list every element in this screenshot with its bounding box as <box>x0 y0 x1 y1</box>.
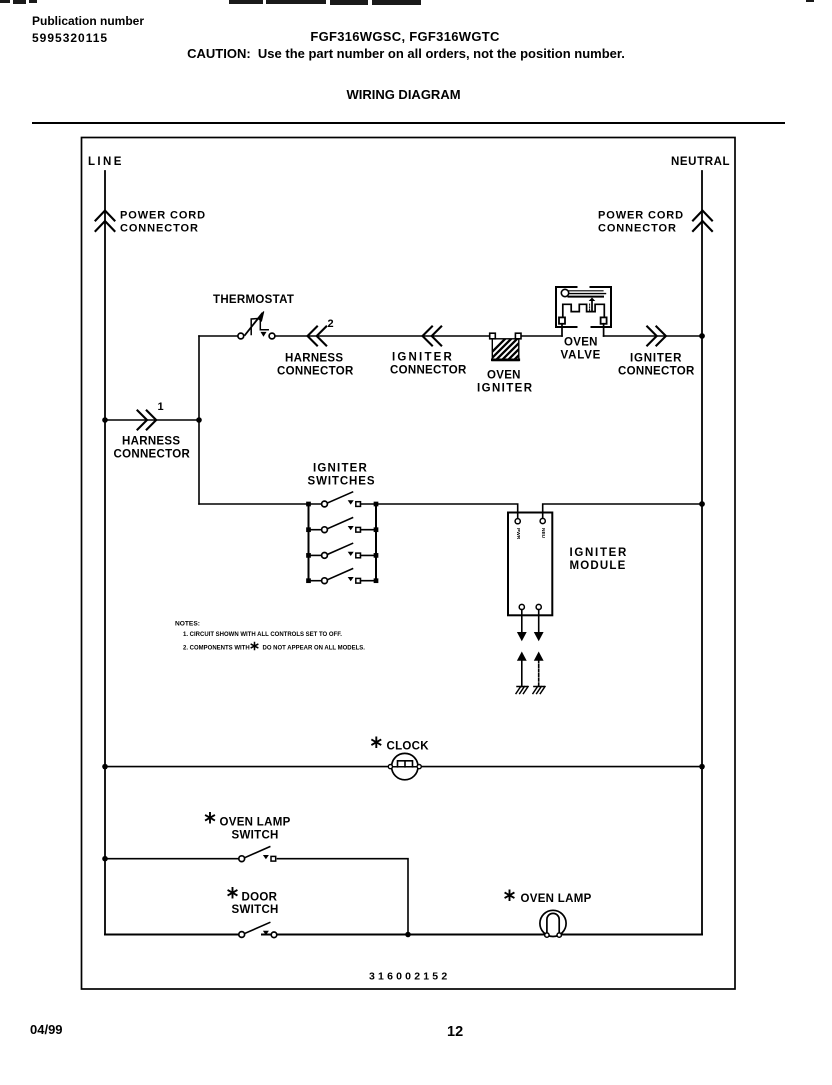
svg-text:IGNITER: IGNITER <box>477 383 533 395</box>
thermostat switch symbol <box>238 312 275 339</box>
label OVEN LAMP SWITCH <box>220 817 291 842</box>
oven lamp symbol <box>540 910 566 937</box>
label HARNESS CONNECTOR (1) <box>114 436 191 461</box>
svg-text:NEUTRAL: NEUTRAL <box>671 156 730 168</box>
svg-text:CONNECTOR: CONNECTOR <box>120 223 199 235</box>
asterisk for OVEN LAMP <box>505 891 513 901</box>
svg-text:NOTES:: NOTES: <box>175 621 200 628</box>
label OVEN VALVE <box>561 337 602 362</box>
wire: door switch / oven lamp row <box>105 934 702 936</box>
module pin PWR (top left) <box>515 519 520 524</box>
igniter switch bank left rail <box>308 504 310 581</box>
junction: thermostat row to neutral rail <box>699 333 705 339</box>
svg-text:IGNITER: IGNITER <box>313 463 368 475</box>
junction: harness row at branch vertical <box>196 417 202 423</box>
svg-text:2: 2 <box>328 318 334 330</box>
igniter switch 1 <box>322 492 376 507</box>
label IGNITER MODULE <box>570 547 629 572</box>
wire: branch vertical x=199 <box>198 336 200 504</box>
igniter connector (left) symbol <box>423 327 442 346</box>
wire: switches to igniter module pin <box>376 504 518 519</box>
svg-text:CONNECTOR: CONNECTOR <box>618 366 695 378</box>
wire: oven igniter to oven valve <box>521 335 562 337</box>
svg-text:OVEN: OVEN <box>487 370 521 382</box>
chassis ground (left) <box>516 687 528 694</box>
svg-text:PWR: PWR <box>515 528 521 540</box>
igniter connector (right) symbol <box>647 327 666 346</box>
svg-text:IGNITER: IGNITER <box>630 353 682 365</box>
svg-text:THERMOSTAT: THERMOSTAT <box>213 294 294 306</box>
harness connector 2 symbol <box>308 327 327 346</box>
diagram border frame <box>82 138 736 990</box>
asterisk for OVEN LAMP SWITCH <box>206 813 214 823</box>
svg-text:DOOR: DOOR <box>242 892 278 904</box>
clock motor symbol <box>388 753 421 779</box>
module plug arrow down (right) <box>534 610 544 642</box>
junction: lamp switch branch joins door row <box>405 932 411 938</box>
module bottom pin (right) <box>536 604 541 609</box>
wire: harness row <box>105 419 199 421</box>
junction: harness row at LINE rail <box>102 417 108 423</box>
svg-text:SWITCH: SWITCH <box>232 904 279 916</box>
wire: LINE vertical rail <box>104 171 106 935</box>
junction: clock row at LINE rail <box>102 764 108 770</box>
svg-text:2. COMPONENTS WITH: 2. COMPONENTS WITH <box>183 646 250 652</box>
wire: thermostat to oven valve segment <box>275 335 490 337</box>
svg-text:NEU: NEU <box>540 528 546 539</box>
door switch symbol <box>239 923 277 938</box>
cut-off print at page top edge <box>0 0 10 3</box>
module bottom pin (left) <box>519 604 524 609</box>
svg-text:CONNECTOR: CONNECTOR <box>114 449 191 461</box>
svg-text:POWER CORD: POWER CORD <box>120 210 206 222</box>
igniter switch 4 <box>309 569 377 584</box>
igniter switch 3 <box>309 543 377 558</box>
svg-text:DO NOT APPEAR ON ALL MODELS.: DO NOT APPEAR ON ALL MODELS. <box>263 646 366 652</box>
junction squares on switch rails <box>306 502 378 583</box>
label POWER CORD CONNECTOR (right) <box>598 210 684 235</box>
svg-text:HARNESS: HARNESS <box>285 353 343 365</box>
svg-text:CONNECTOR: CONNECTOR <box>390 365 467 377</box>
power cord connector (left) <box>96 211 115 232</box>
harness connector 1 symbol <box>138 411 157 430</box>
wire: oven lamp switch row <box>105 859 408 935</box>
horizontal rule under title <box>33 122 784 124</box>
svg-text:1: 1 <box>158 401 164 413</box>
wire: thermostat row left segment <box>199 335 238 337</box>
label HARNESS CONNECTOR (2) <box>277 353 354 378</box>
svg-text:SWITCH: SWITCH <box>232 830 279 842</box>
chassis ground (right) <box>533 687 545 694</box>
svg-text:OVEN LAMP: OVEN LAMP <box>521 893 592 905</box>
svg-text:CONNECTOR: CONNECTOR <box>277 366 354 378</box>
igniter switch bank right rail <box>375 504 377 581</box>
svg-text:POWER CORD: POWER CORD <box>598 210 684 222</box>
igniter switch 2 <box>309 518 377 533</box>
label IGNITER CONNECTOR (left) <box>390 352 467 377</box>
asterisk for CLOCK <box>372 738 380 748</box>
oven igniter <box>478 333 536 366</box>
svg-text:IGNITER: IGNITER <box>392 352 454 364</box>
label DOOR SWITCH <box>232 892 279 917</box>
power cord connector (right) <box>693 211 712 232</box>
receptacle arrow up (right) <box>534 652 544 687</box>
label POWER CORD CONNECTOR (left) <box>120 210 206 235</box>
wire: oven valve to neutral rail <box>604 335 702 337</box>
module pin NEU (top right) <box>540 518 545 523</box>
wire: feed to igniter switches <box>199 503 322 505</box>
oven valve <box>556 287 611 336</box>
label IGNITER CONNECTOR (right) <box>618 353 695 378</box>
notes text <box>175 621 365 652</box>
wire: igniter module to neutral rail <box>543 504 702 518</box>
module plug arrow down (left) <box>517 610 527 642</box>
svg-text:316002152: 316002152 <box>369 971 450 983</box>
svg-text:VALVE: VALVE <box>561 350 602 362</box>
asterisk for DOOR SWITCH <box>228 888 236 898</box>
svg-text:OVEN LAMP: OVEN LAMP <box>220 817 291 829</box>
wire: NEUTRAL vertical rail <box>701 171 703 935</box>
svg-text:IGNITER: IGNITER <box>570 547 629 559</box>
svg-text:CLOCK: CLOCK <box>387 741 430 753</box>
svg-text:HARNESS: HARNESS <box>122 436 180 448</box>
junction: module wire at neutral rail <box>699 501 705 507</box>
svg-text:CONNECTOR: CONNECTOR <box>598 223 677 235</box>
junction: clock row at NEUTRAL rail <box>699 764 705 770</box>
receptacle arrow up (left) <box>517 652 527 687</box>
wire: clock row <box>105 766 702 768</box>
junction: lamp switch row at LINE rail <box>102 856 108 862</box>
label IGNITER SWITCHES <box>308 463 376 488</box>
svg-text:SWITCHES: SWITCHES <box>308 476 376 488</box>
svg-text:1. CIRCUIT SHOWN WITH ALL CONT: 1. CIRCUIT SHOWN WITH ALL CONTROLS SET T… <box>183 632 342 638</box>
igniter module box <box>508 513 552 616</box>
oven lamp switch symbol <box>239 847 276 862</box>
note asterisk <box>251 643 257 650</box>
svg-text:MODULE: MODULE <box>570 560 627 572</box>
svg-text:OVEN: OVEN <box>564 337 598 349</box>
svg-text:LINE: LINE <box>88 156 124 168</box>
label OVEN IGNITER <box>477 370 533 395</box>
